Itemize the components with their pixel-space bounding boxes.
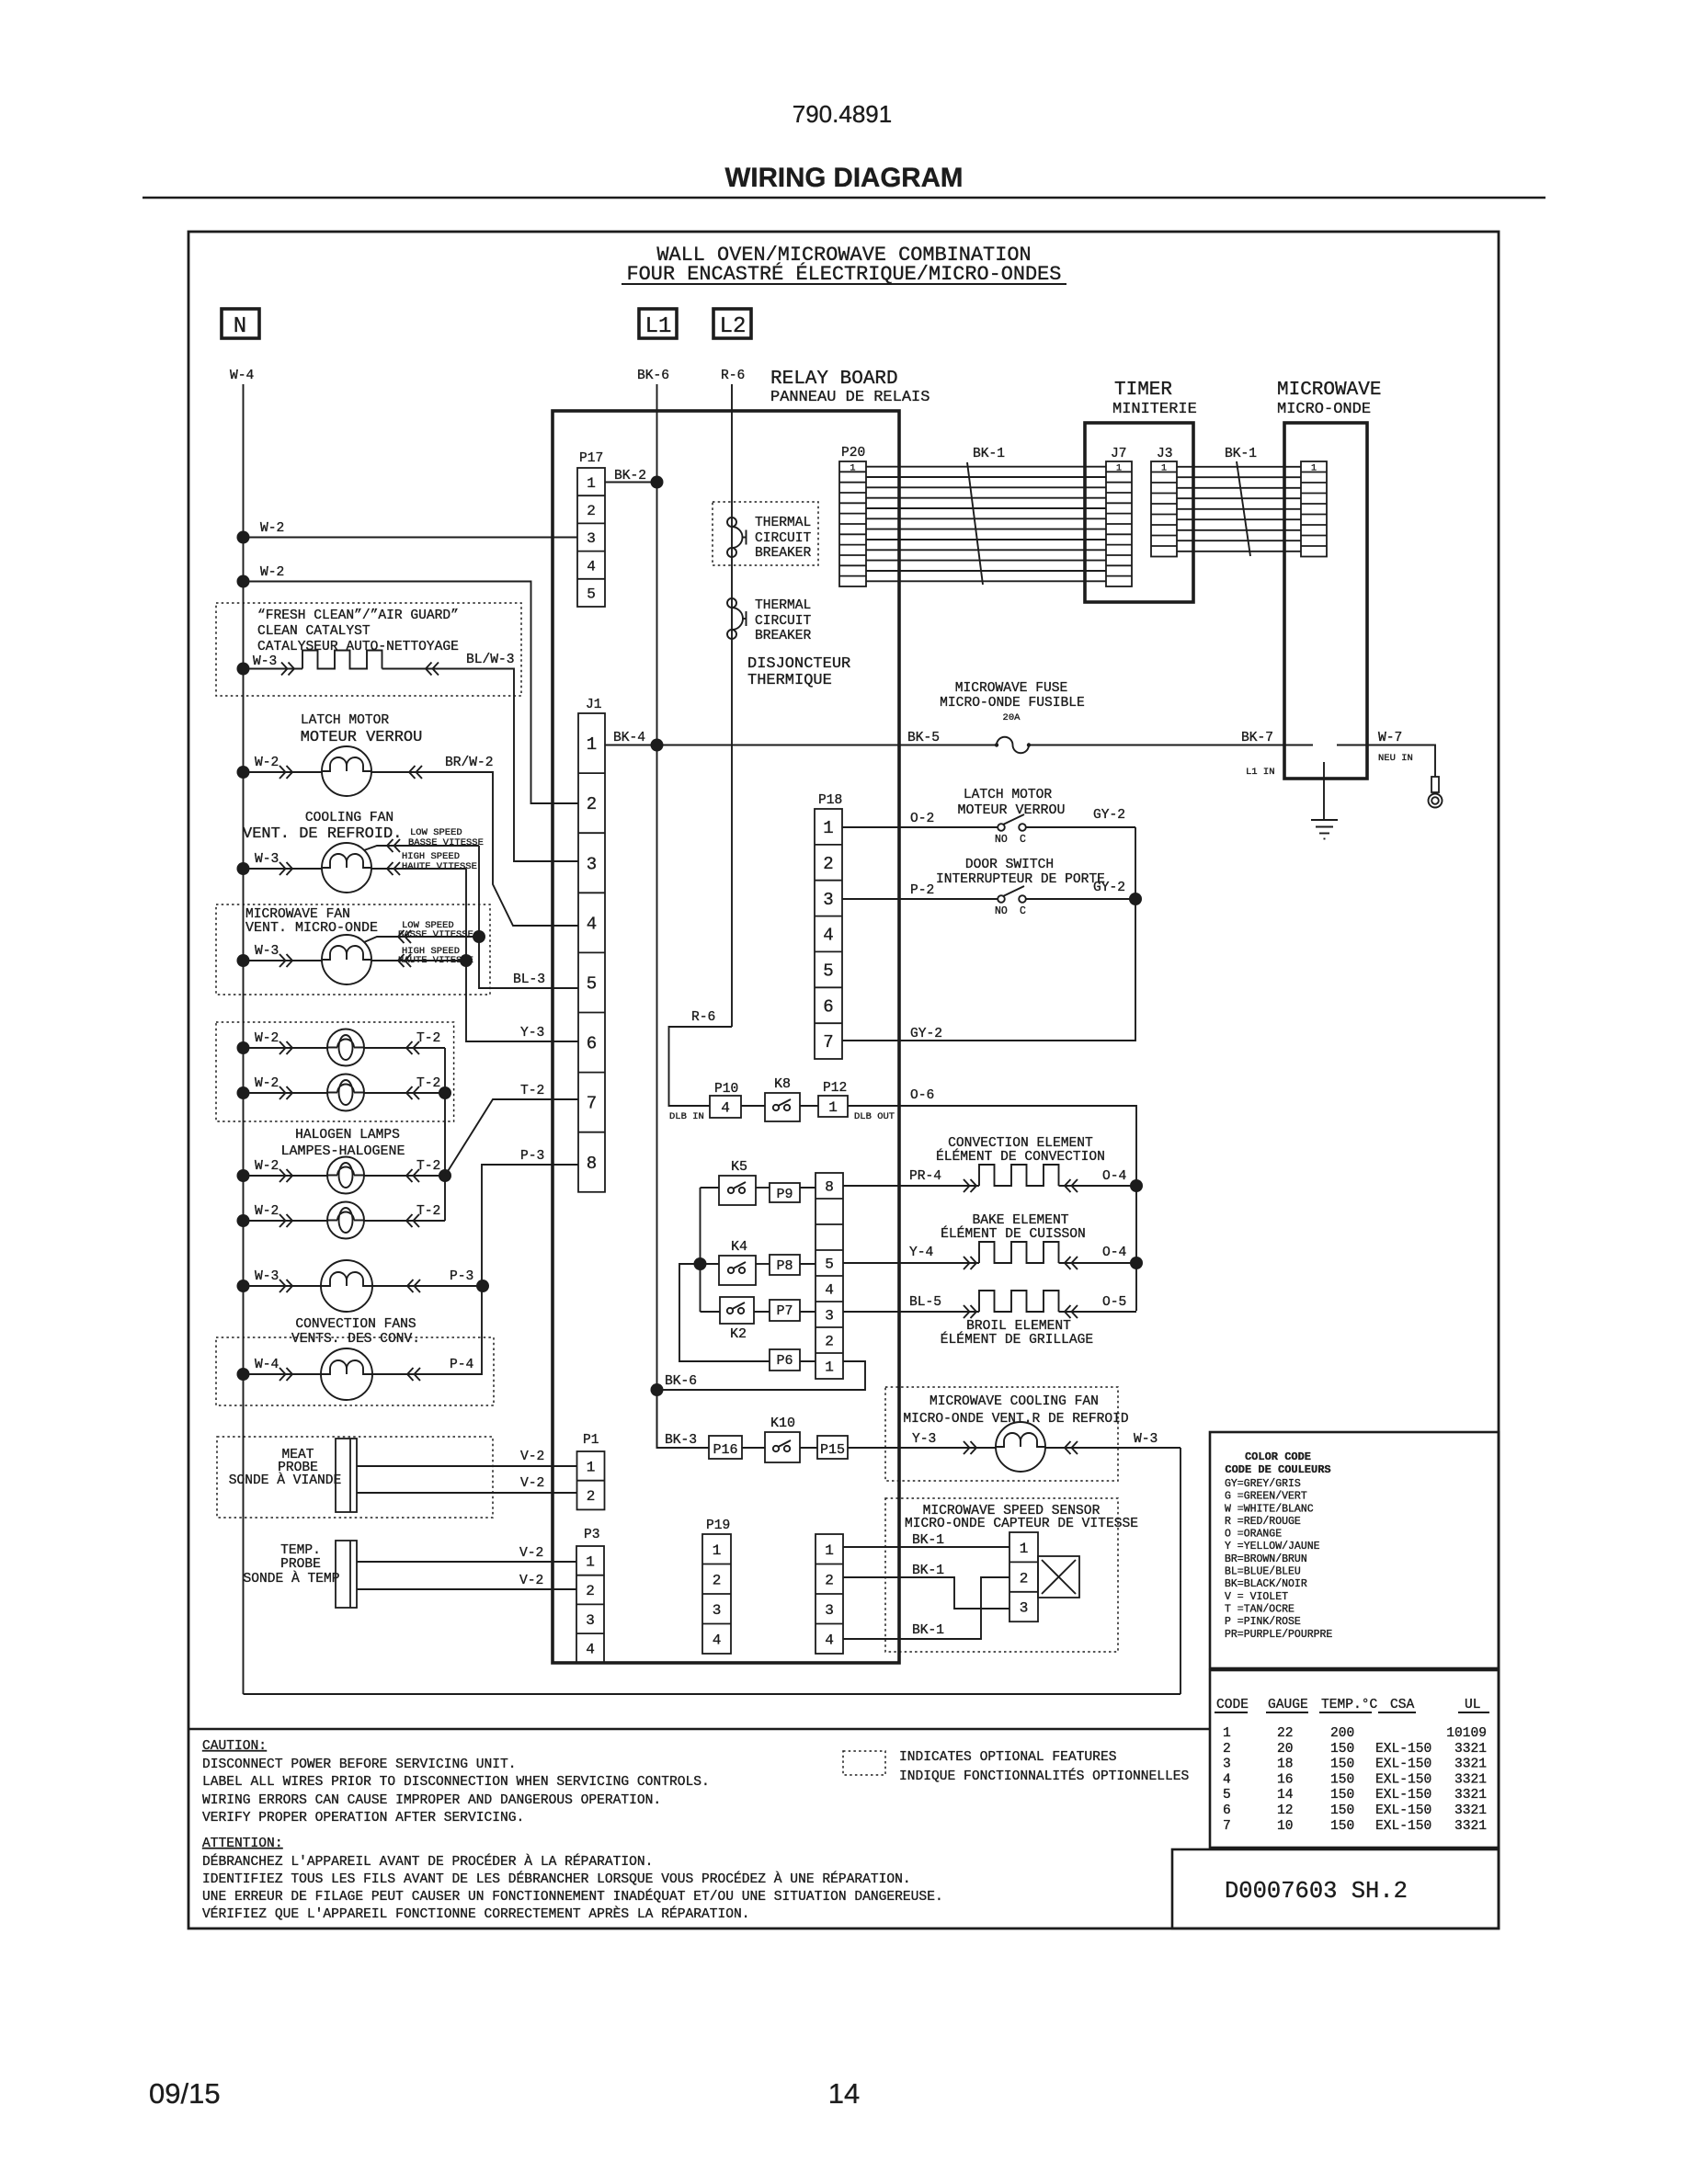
svg-text:W-3: W-3 bbox=[1134, 1432, 1158, 1447]
svg-text:P =PINK/ROSE: P =PINK/ROSE bbox=[1225, 1616, 1301, 1628]
svg-text:W-7: W-7 bbox=[1378, 731, 1402, 745]
svg-text:P3: P3 bbox=[584, 1528, 600, 1542]
svg-text:PR-4: PR-4 bbox=[909, 1169, 941, 1184]
meat probe element bbox=[336, 1439, 357, 1512]
svg-text:2: 2 bbox=[823, 854, 833, 874]
wire latch motor left bbox=[244, 771, 323, 773]
chevron lamp D left bbox=[279, 1214, 292, 1227]
svg-text:LATCH MOTOR: LATCH MOTOR bbox=[301, 713, 390, 728]
microwave cooling fan dashed box bbox=[885, 1387, 1118, 1481]
svg-text:P12: P12 bbox=[823, 1081, 847, 1096]
wire neutral bus bottom run bbox=[244, 1693, 1181, 1695]
chevron catalyst right bbox=[426, 663, 439, 676]
wire latch switch to GY-2 bus bbox=[1026, 826, 1135, 828]
svg-text:7: 7 bbox=[823, 1032, 833, 1052]
motor M microwave fan bbox=[322, 935, 371, 984]
svg-text:3321: 3321 bbox=[1454, 1742, 1487, 1757]
svg-text:5: 5 bbox=[823, 961, 833, 982]
svg-text:3: 3 bbox=[1020, 1600, 1029, 1617]
svg-text:PR=PURPLE/POURPRE: PR=PURPLE/POURPRE bbox=[1225, 1629, 1332, 1641]
thermal circuit breaker 2 bbox=[727, 598, 736, 608]
svg-text:BK-3: BK-3 bbox=[665, 1433, 697, 1448]
svg-text:Y-4: Y-4 bbox=[909, 1246, 934, 1260]
svg-text:CIRCUIT: CIRCUIT bbox=[755, 614, 812, 629]
svg-text:GY-2: GY-2 bbox=[1093, 881, 1125, 895]
wire cooling high speed vertical bbox=[465, 869, 467, 961]
svg-text:BK-1: BK-1 bbox=[912, 1623, 944, 1638]
svg-text:PROBE: PROBE bbox=[280, 1557, 321, 1572]
svg-text:2: 2 bbox=[825, 1573, 834, 1589]
svg-text:ÉLÉMENT DE GRILLAGE: ÉLÉMENT DE GRILLAGE bbox=[941, 1331, 1093, 1348]
wire BL-3 to J1 pin5 bbox=[479, 937, 578, 988]
svg-text:3: 3 bbox=[587, 530, 596, 547]
wire K2 left bbox=[701, 1311, 721, 1313]
svg-text:4: 4 bbox=[587, 914, 597, 934]
svg-text:1: 1 bbox=[1223, 1726, 1231, 1741]
svg-text:3321: 3321 bbox=[1454, 1788, 1487, 1803]
svg-text:VENTS. DES CONV.: VENTS. DES CONV. bbox=[291, 1332, 420, 1347]
svg-text:THERMAL: THERMAL bbox=[755, 598, 811, 613]
svg-text:BR/W-2: BR/W-2 bbox=[445, 756, 494, 770]
svg-text:3: 3 bbox=[586, 1612, 595, 1629]
svg-text:NO: NO bbox=[995, 834, 1008, 846]
svg-text:3321: 3321 bbox=[1454, 1757, 1487, 1772]
svg-text:DISJONCTEUR: DISJONCTEUR bbox=[747, 655, 850, 673]
svg-text:PANNEAU DE RELAIS: PANNEAU DE RELAIS bbox=[770, 389, 930, 406]
svg-text:10109: 10109 bbox=[1446, 1726, 1487, 1741]
svg-text:3: 3 bbox=[825, 1308, 834, 1325]
svg-text:BL-3: BL-3 bbox=[513, 973, 545, 987]
connector P16 bbox=[709, 1436, 742, 1459]
wire door switch to GY-2 bus bbox=[1026, 898, 1135, 900]
svg-text:1: 1 bbox=[825, 1359, 834, 1376]
svg-text:8: 8 bbox=[825, 1179, 834, 1196]
svg-text:V-2: V-2 bbox=[519, 1574, 543, 1588]
svg-text:3: 3 bbox=[1223, 1757, 1231, 1772]
svg-text:W =WHITE/BLANC: W =WHITE/BLANC bbox=[1225, 1503, 1314, 1515]
svg-text:J7: J7 bbox=[1111, 447, 1127, 461]
wire microwave internal ground bbox=[1323, 762, 1325, 820]
wire lamp A left bbox=[244, 1047, 328, 1049]
junction dot BK-2 bbox=[651, 476, 664, 489]
svg-text:P10: P10 bbox=[714, 1082, 738, 1097]
wire P7 to pin3 bbox=[800, 1311, 815, 1313]
junction dot BK-4 on BK-6 bus bbox=[651, 739, 664, 752]
svg-text:5: 5 bbox=[587, 586, 596, 603]
svg-text:4: 4 bbox=[586, 1642, 595, 1658]
svg-text:P-2: P-2 bbox=[910, 883, 934, 898]
chevron lamp A left bbox=[279, 1041, 292, 1054]
svg-text:L1 IN: L1 IN bbox=[1246, 767, 1275, 778]
svg-text:150: 150 bbox=[1330, 1788, 1354, 1803]
svg-text:C: C bbox=[1020, 905, 1026, 917]
svg-text:BK-5: BK-5 bbox=[907, 731, 940, 745]
svg-text:3: 3 bbox=[713, 1602, 722, 1619]
svg-text:BL=BLUE/BLEU: BL=BLUE/BLEU bbox=[1225, 1566, 1301, 1578]
svg-text:W-4: W-4 bbox=[255, 1358, 279, 1372]
wire convection fan 1 left bbox=[244, 1285, 322, 1287]
svg-text:EXL-150: EXL-150 bbox=[1375, 1788, 1431, 1803]
svg-text:1: 1 bbox=[1311, 463, 1317, 473]
svg-text:1: 1 bbox=[586, 1554, 595, 1571]
wire PR-4 pin8 to convection element bbox=[843, 1185, 979, 1187]
wire lamp A right T-2 bbox=[364, 1047, 445, 1049]
wire W-2 to J1 pin2 bbox=[237, 575, 250, 588]
connector microwave input bbox=[1301, 461, 1327, 557]
drawing number box D0007603 SH.2 bbox=[1172, 1849, 1499, 1928]
wire lamp C right T-2 bbox=[364, 1175, 445, 1177]
svg-text:J3: J3 bbox=[1157, 447, 1173, 461]
svg-text:2: 2 bbox=[587, 503, 596, 519]
chevron cooling low speed bbox=[387, 839, 400, 852]
svg-text:1: 1 bbox=[1116, 463, 1122, 473]
svg-text:K5: K5 bbox=[731, 1159, 747, 1175]
terminal N bbox=[222, 309, 259, 338]
wire catalyst left bbox=[244, 668, 303, 670]
svg-text:MICRO-ONDE CAPTEUR DE VITESSE: MICRO-ONDE CAPTEUR DE VITESSE bbox=[905, 1517, 1138, 1531]
broil element bbox=[979, 1291, 1059, 1312]
svg-text:UL: UL bbox=[1465, 1698, 1481, 1712]
svg-text:T-2: T-2 bbox=[416, 1076, 440, 1091]
svg-text:BK-6: BK-6 bbox=[637, 369, 669, 383]
optional features sample dashed box bbox=[843, 1751, 885, 1775]
wire W-7 NEU IN bbox=[1337, 745, 1435, 778]
connector P6 bbox=[770, 1349, 800, 1371]
svg-text:MICROWAVE FUSE: MICROWAVE FUSE bbox=[955, 681, 1068, 696]
chevron convection left bbox=[964, 1179, 976, 1192]
svg-text:3321: 3321 bbox=[1454, 1772, 1487, 1787]
microwave box outline bbox=[1284, 423, 1367, 779]
motor M cooling fan bbox=[322, 843, 371, 893]
wire K10 to P15 bbox=[800, 1447, 817, 1449]
junction dot K-block bbox=[694, 1257, 707, 1270]
catalyst resistor element bbox=[302, 651, 382, 669]
svg-text:SONDE À VIANDE: SONDE À VIANDE bbox=[229, 1472, 342, 1488]
svg-text:W-3: W-3 bbox=[255, 944, 279, 959]
svg-text:N: N bbox=[234, 314, 246, 339]
svg-text:4: 4 bbox=[587, 558, 596, 574]
svg-text:V-2: V-2 bbox=[520, 1450, 544, 1464]
chevron catalyst left bbox=[281, 663, 294, 676]
junction dot W-2 lamp D bbox=[237, 1214, 250, 1227]
svg-text:CIRCUIT: CIRCUIT bbox=[755, 531, 812, 546]
connector P15 bbox=[817, 1436, 848, 1459]
svg-text:3: 3 bbox=[823, 890, 833, 910]
junction dot BK-6 node bbox=[651, 1383, 664, 1396]
svg-text:5: 5 bbox=[825, 1257, 834, 1273]
chevron mw cooling left bbox=[964, 1441, 976, 1454]
svg-text:150: 150 bbox=[1330, 1757, 1354, 1772]
svg-text:V = VIOLET: V = VIOLET bbox=[1225, 1591, 1288, 1603]
junction dot W-3 cooling fan bbox=[237, 862, 250, 875]
chevron bake right bbox=[1065, 1257, 1078, 1269]
wire bundle P20 to J7 bbox=[866, 466, 1106, 468]
svg-text:W-4: W-4 bbox=[230, 369, 255, 383]
wire T-2 bus vertical bbox=[444, 1048, 446, 1221]
chevron lamp C left bbox=[279, 1169, 292, 1182]
cable slash J3-microwave bbox=[1237, 461, 1250, 556]
svg-text:TIMER: TIMER bbox=[1114, 380, 1172, 401]
svg-text:ATTENTION:: ATTENTION: bbox=[202, 1837, 283, 1851]
junction dot W-3 convection fan 1 bbox=[237, 1280, 250, 1292]
chevron lamp A right bbox=[406, 1041, 419, 1054]
bake element bbox=[979, 1242, 1059, 1263]
wire Y-4 pin5 to bake element bbox=[843, 1262, 979, 1264]
wire V-2 meat probe to P1 pin2 bbox=[357, 1492, 577, 1494]
svg-text:DLB IN: DLB IN bbox=[669, 1111, 704, 1122]
svg-text:CSA: CSA bbox=[1390, 1698, 1415, 1712]
svg-text:NO: NO bbox=[995, 905, 1008, 917]
svg-text:K2: K2 bbox=[730, 1326, 747, 1342]
wire P6 jog from K-block bbox=[679, 1264, 770, 1361]
svg-text:1: 1 bbox=[850, 463, 855, 473]
svg-text:BK-6: BK-6 bbox=[665, 1374, 697, 1389]
wire O-4 convection to bus bbox=[1059, 1185, 1137, 1187]
svg-text:4: 4 bbox=[713, 1632, 722, 1649]
svg-text:R =RED/ROUGE: R =RED/ROUGE bbox=[1225, 1516, 1301, 1528]
svg-text:5: 5 bbox=[1223, 1788, 1231, 1803]
svg-text:1: 1 bbox=[587, 734, 597, 755]
svg-text:18: 18 bbox=[1277, 1757, 1294, 1772]
svg-text:W-2: W-2 bbox=[255, 1159, 279, 1174]
svg-text:2: 2 bbox=[587, 794, 597, 814]
svg-text:GY=GREY/GRIS: GY=GREY/GRIS bbox=[1225, 1478, 1301, 1490]
svg-text:CODE: CODE bbox=[1216, 1698, 1249, 1712]
terminal L1 bbox=[639, 309, 677, 338]
thermal breaker dashed box bbox=[713, 502, 818, 565]
svg-text:BK-7: BK-7 bbox=[1241, 731, 1273, 745]
svg-text:W-3: W-3 bbox=[253, 654, 277, 669]
svg-text:EXL-150: EXL-150 bbox=[1375, 1819, 1431, 1834]
svg-text:BL/W-3: BL/W-3 bbox=[466, 653, 515, 667]
svg-text:T-2: T-2 bbox=[520, 1084, 544, 1098]
svg-text:14: 14 bbox=[1277, 1788, 1294, 1803]
clean catalyst dashed box bbox=[216, 603, 521, 696]
svg-text:1: 1 bbox=[823, 818, 833, 838]
wire W-2 to P17 pin3 bbox=[237, 531, 250, 544]
connector speed sensor device side bbox=[1009, 1532, 1038, 1621]
wire P9 to pin8 bbox=[800, 1187, 815, 1189]
svg-text:LABEL ALL WIRES PRIOR TO DISCO: LABEL ALL WIRES PRIOR TO DISCONNECTION W… bbox=[202, 1775, 710, 1790]
junction dot W-2 lamp C bbox=[237, 1169, 250, 1182]
svg-text:MICROWAVE COOLING FAN: MICROWAVE COOLING FAN bbox=[930, 1394, 1099, 1409]
svg-text:BASSE VITESSE: BASSE VITESSE bbox=[408, 837, 484, 848]
latch motor switch bbox=[998, 824, 1005, 831]
connector speed sensor relay side bbox=[815, 1534, 843, 1654]
junction dot P-3 bbox=[476, 1280, 489, 1292]
svg-text:C: C bbox=[1020, 834, 1026, 846]
svg-text:CODE DE COULEURS: CODE DE COULEURS bbox=[1225, 1463, 1330, 1476]
junction dot O-4 bake bbox=[1130, 1257, 1143, 1269]
svg-text:BK-1: BK-1 bbox=[1225, 447, 1257, 461]
wire lamp C left bbox=[244, 1175, 328, 1177]
svg-text:3321: 3321 bbox=[1454, 1819, 1487, 1834]
wire mw fan low speed bbox=[364, 937, 479, 942]
svg-text:MICRO-ONDE VENT.R DE REFROID: MICRO-ONDE VENT.R DE REFROID bbox=[903, 1412, 1128, 1427]
junction dot O-4 convection bbox=[1130, 1179, 1143, 1192]
svg-text:6: 6 bbox=[823, 996, 833, 1017]
junction dot W-3 mw fan bbox=[237, 954, 250, 967]
wire R-6 vertical from L2 bbox=[731, 384, 733, 1027]
svg-text:T-2: T-2 bbox=[416, 1159, 440, 1174]
svg-text:W-2: W-2 bbox=[255, 1204, 279, 1219]
svg-text:2: 2 bbox=[825, 1334, 834, 1350]
wire Y-3 P15 to mw cooling fan bbox=[848, 1447, 996, 1449]
svg-text:1: 1 bbox=[713, 1542, 722, 1559]
wire BK-1 pin1 to sensor pin1 bbox=[843, 1546, 1009, 1548]
svg-text:4: 4 bbox=[823, 926, 833, 946]
svg-text:20A: 20A bbox=[1003, 712, 1021, 723]
wire BK-1 pin2 to sensor pin3 bbox=[843, 1577, 1009, 1609]
svg-text:SONDE À TEMP: SONDE À TEMP bbox=[243, 1570, 339, 1587]
svg-text:EXL-150: EXL-150 bbox=[1375, 1803, 1431, 1818]
svg-text:R-6: R-6 bbox=[721, 369, 745, 383]
wire P16 to K10 bbox=[742, 1447, 765, 1449]
svg-text:P-4: P-4 bbox=[450, 1358, 474, 1372]
svg-text:W-2: W-2 bbox=[255, 1076, 279, 1091]
svg-text:22: 22 bbox=[1277, 1726, 1294, 1741]
svg-text:P6: P6 bbox=[776, 1353, 793, 1369]
svg-text:8: 8 bbox=[587, 1154, 597, 1174]
svg-text:P15: P15 bbox=[820, 1442, 845, 1458]
svg-text:MICRO-ONDE: MICRO-ONDE bbox=[1277, 401, 1371, 418]
svg-text:DÉBRANCHEZ L'APPAREIL AVANT DE: DÉBRANCHEZ L'APPAREIL AVANT DE PROCÉDER … bbox=[202, 1853, 653, 1870]
svg-text:EXL-150: EXL-150 bbox=[1375, 1772, 1431, 1787]
svg-text:200: 200 bbox=[1330, 1726, 1354, 1741]
svg-text:L2: L2 bbox=[720, 314, 747, 339]
svg-text:DOOR SWITCH: DOOR SWITCH bbox=[965, 858, 1054, 872]
svg-text:2: 2 bbox=[713, 1573, 722, 1589]
svg-text:CATALYSEUR AUTO-NETTOYAGE: CATALYSEUR AUTO-NETTOYAGE bbox=[257, 640, 459, 654]
ground symbol microwave bbox=[1311, 819, 1338, 821]
halogen lamp C bbox=[327, 1157, 364, 1194]
junction dot W-2 lamp A bbox=[237, 1041, 250, 1054]
wire lamp D right T-2 bbox=[364, 1220, 445, 1222]
svg-text:HALOGEN LAMPS: HALOGEN LAMPS bbox=[295, 1128, 400, 1143]
wire V-2 temp probe to P3 pin2 bbox=[357, 1588, 576, 1590]
junction dot T-2 lamp C bbox=[439, 1169, 451, 1182]
svg-text:TEMP.: TEMP. bbox=[280, 1543, 321, 1558]
junction dot low speed bbox=[473, 930, 485, 943]
chevron lamp D right bbox=[406, 1214, 419, 1227]
svg-text:BROIL ELEMENT: BROIL ELEMENT bbox=[966, 1319, 1071, 1334]
door switch bbox=[998, 895, 1005, 903]
wire bundle J3 to microwave bbox=[1177, 466, 1301, 468]
chevron conv fan 1 right bbox=[407, 1280, 420, 1292]
svg-text:BK=BLACK/NOIR: BK=BLACK/NOIR bbox=[1225, 1578, 1307, 1590]
svg-text:7: 7 bbox=[1223, 1819, 1231, 1834]
svg-text:O-4: O-4 bbox=[1102, 1169, 1127, 1184]
svg-text:IDENTIFIEZ TOUS LES FILS AVANT: IDENTIFIEZ TOUS LES FILS AVANT DE LES DÉ… bbox=[202, 1871, 911, 1887]
chevron conv fan 2 right bbox=[407, 1368, 420, 1381]
svg-text:LATCH MOTOR: LATCH MOTOR bbox=[964, 788, 1053, 802]
title rule bbox=[143, 197, 1545, 199]
svg-text:GY-2: GY-2 bbox=[1093, 808, 1125, 823]
wire lamp B right T-2 bbox=[364, 1092, 445, 1094]
wire BK-3 to P16 bbox=[657, 1390, 710, 1448]
convection fan 2 dashed box bbox=[216, 1337, 494, 1405]
svg-text:790.4891: 790.4891 bbox=[793, 100, 892, 128]
svg-text:4: 4 bbox=[825, 1282, 834, 1299]
svg-text:4: 4 bbox=[825, 1632, 834, 1649]
wire K4 left bbox=[701, 1263, 720, 1265]
wire K2 to P7 bbox=[754, 1311, 770, 1313]
svg-text:VENT. DE REFROID.: VENT. DE REFROID. bbox=[243, 825, 402, 843]
relay K2 bbox=[720, 1297, 754, 1324]
svg-text:MOTEUR VERROU: MOTEUR VERROU bbox=[301, 729, 423, 746]
wire GY-2 vertical to P18 pin7 bbox=[842, 899, 1135, 1041]
svg-text:RELAY BOARD: RELAY BOARD bbox=[770, 369, 898, 390]
svg-text:DISCONNECT POWER BEFORE SERVIC: DISCONNECT POWER BEFORE SERVICING UNIT. bbox=[202, 1757, 517, 1772]
ring terminal W-7 bbox=[1431, 777, 1439, 792]
svg-text:W-2: W-2 bbox=[260, 521, 284, 536]
svg-text:J1: J1 bbox=[586, 698, 602, 712]
connector P7 bbox=[770, 1300, 800, 1321]
svg-text:INDIQUE FONCTIONNALITÉS OPTION: INDIQUE FONCTIONNALITÉS OPTIONNELLES bbox=[899, 1768, 1190, 1784]
svg-text:BK-1: BK-1 bbox=[973, 447, 1005, 461]
microwave fan dashed box bbox=[216, 904, 490, 995]
wire O-4 bake to bus bbox=[1059, 1262, 1137, 1264]
svg-text:MICROWAVE: MICROWAVE bbox=[1277, 380, 1381, 401]
terminal L2 bbox=[713, 309, 751, 338]
svg-text:TEMP.°C: TEMP.°C bbox=[1321, 1698, 1378, 1712]
svg-text:Y =YELLOW/JAUNE: Y =YELLOW/JAUNE bbox=[1225, 1541, 1320, 1553]
junction dot T-2 lamp B bbox=[439, 1086, 451, 1099]
chevron conv fan 2 left bbox=[279, 1368, 292, 1381]
wire O-6 P12 to convection dot bbox=[848, 1106, 1136, 1186]
svg-text:NEU IN: NEU IN bbox=[1378, 753, 1413, 764]
svg-text:COOLING FAN: COOLING FAN bbox=[305, 811, 393, 825]
svg-text:2: 2 bbox=[587, 1488, 596, 1505]
chevron cooling left bbox=[279, 862, 292, 875]
temp probe element bbox=[336, 1541, 357, 1608]
svg-text:150: 150 bbox=[1330, 1803, 1354, 1818]
wire BL-5 pin3 to broil element bbox=[843, 1311, 979, 1313]
microwave speed sensor dashed box bbox=[885, 1498, 1118, 1652]
convection element bbox=[979, 1165, 1059, 1186]
svg-text:6: 6 bbox=[587, 1034, 597, 1054]
svg-text:INTERRUPTEUR DE PORTE: INTERRUPTEUR DE PORTE bbox=[936, 872, 1105, 887]
svg-text:6: 6 bbox=[1223, 1803, 1231, 1818]
wire conv fan 2 left bbox=[244, 1373, 322, 1375]
chevron cooling high speed bbox=[387, 862, 400, 875]
svg-text:P16: P16 bbox=[713, 1442, 737, 1458]
chevron conv fan 1 left bbox=[279, 1280, 292, 1292]
svg-text:2: 2 bbox=[586, 1583, 595, 1599]
junction dot W-2 latch bbox=[237, 766, 250, 779]
svg-text:1: 1 bbox=[825, 1542, 834, 1559]
wire V-2 meat probe to P1 pin1 bbox=[357, 1465, 577, 1467]
motor M convection fan 2 bbox=[321, 1348, 372, 1400]
svg-text:CAUTION:: CAUTION: bbox=[202, 1739, 267, 1754]
timer box outline bbox=[1085, 423, 1193, 602]
motor M microwave cooling fan bbox=[996, 1422, 1045, 1472]
svg-text:V-2: V-2 bbox=[519, 1546, 543, 1561]
wire BK-1 pin4 to sensor pin2 bbox=[843, 1577, 1009, 1639]
svg-text:BAKE ELEMENT: BAKE ELEMENT bbox=[972, 1213, 1068, 1228]
connector P8 bbox=[770, 1255, 800, 1275]
meat probe dashed box bbox=[217, 1437, 493, 1518]
svg-text:W-2: W-2 bbox=[255, 756, 279, 770]
wire BK-6 vertical from L1 bbox=[656, 384, 658, 1448]
svg-text:3: 3 bbox=[587, 854, 597, 874]
svg-text:O-6: O-6 bbox=[910, 1088, 934, 1103]
wire P18 pin1 to latch switch bbox=[842, 826, 998, 828]
wire mw fan left bbox=[244, 960, 323, 961]
chevron latch left bbox=[279, 766, 292, 779]
svg-text:THERMIQUE: THERMIQUE bbox=[747, 672, 832, 689]
svg-text:O-5: O-5 bbox=[1102, 1295, 1126, 1310]
